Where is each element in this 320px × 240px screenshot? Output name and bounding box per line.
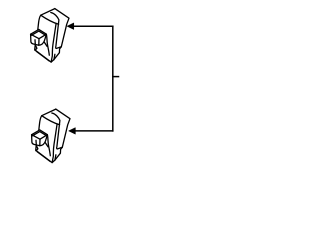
callout leader top horizontal (73, 25, 112, 27)
arrowhead bottom (69, 128, 76, 135)
part: sensor assembly (bottom) (32, 109, 70, 163)
callout leader bottom horizontal (75, 130, 113, 132)
callout tick (113, 76, 119, 78)
callout bracket vertical (112, 26, 114, 131)
part: sensor assembly (top) (31, 9, 69, 63)
arrowhead top (67, 23, 74, 30)
